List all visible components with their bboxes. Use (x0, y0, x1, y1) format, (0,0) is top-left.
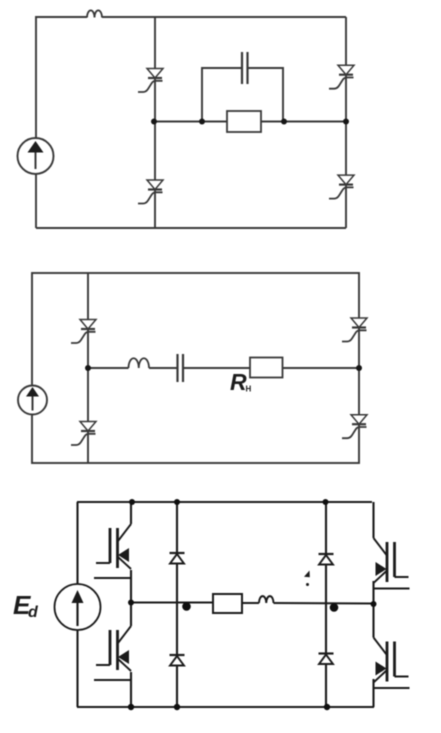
svg-text:R: R (230, 369, 247, 395)
svg-text:H: H (246, 385, 252, 394)
svg-text:d: d (28, 604, 39, 621)
